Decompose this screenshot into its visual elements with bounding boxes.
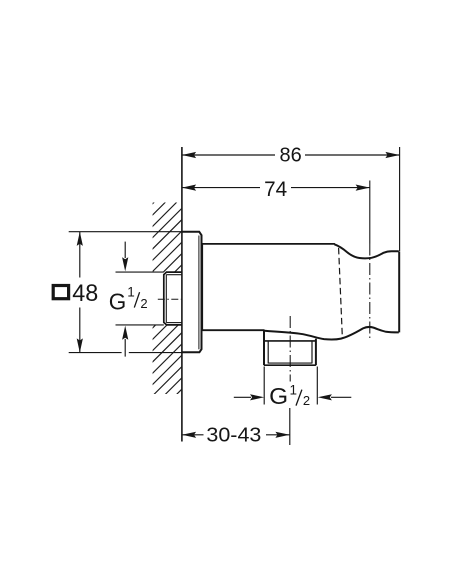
dim 48: bottom extension line (gap at G1/2 arrow shaft) bbox=[69, 352, 122, 354]
inlet thread chamfer bottom bbox=[166, 322, 181, 324]
holder right edge bbox=[398, 251, 400, 332]
holder top wave profile bbox=[334, 244, 398, 258]
inlet thread box behind wall bbox=[164, 272, 182, 325]
outlet thread top edge bbox=[264, 340, 316, 342]
svg-text:1: 1 bbox=[290, 382, 298, 397]
dim 86: right arrow bbox=[385, 152, 399, 158]
dim G1/2 left: fraction slash bbox=[134, 292, 139, 307]
dim G1/2 bottom: right arrow bbox=[331, 396, 351, 398]
flange (escutcheon) outline bbox=[182, 232, 202, 353]
holder bottom wave profile bbox=[264, 327, 399, 340]
dim 48: square symbol bbox=[53, 286, 68, 299]
dim G1/2 bottom: fraction slash bbox=[296, 390, 302, 406]
dim G1/2 bottom: left arrow bbox=[234, 396, 251, 398]
svg-text:G: G bbox=[109, 288, 127, 314]
outlet thread bottom edge bbox=[264, 364, 316, 366]
outlet centerline (dash-dot) bbox=[289, 316, 291, 382]
wall surface line (also extension line for 86/74/30-43) bbox=[181, 147, 183, 442]
svg-text:2: 2 bbox=[140, 296, 147, 311]
dim G1/2 bottom: left extension line bbox=[263, 367, 265, 405]
dim 48: bottom arrow bbox=[77, 338, 83, 352]
dim 48: vertical dimension line bbox=[79, 232, 81, 278]
dim 30-43: dimension line bbox=[182, 434, 204, 436]
svg-text:30-43: 30-43 bbox=[206, 425, 261, 447]
dim G1/2 left: up arrow bbox=[124, 339, 126, 357]
inlet thread chamfer vertical bbox=[165, 275, 167, 323]
dim G1/2 left: down arrow bbox=[124, 242, 126, 258]
outlet thread chamfer left bbox=[267, 342, 269, 364]
body cylinder left edge bbox=[201, 244, 203, 331]
dim 30-43: left arrow bbox=[182, 432, 196, 438]
svg-text:48: 48 bbox=[72, 280, 98, 307]
inlet thread chamfer top bbox=[166, 274, 181, 276]
holder hidden waist line (dashed) bbox=[339, 248, 343, 336]
svg-text:86: 86 bbox=[279, 145, 301, 167]
svg-text:1: 1 bbox=[127, 284, 135, 299]
holder centerline (dash-dot), extension of 74 dim bbox=[369, 181, 371, 244]
outlet thread inner bottom line bbox=[268, 362, 312, 364]
flange inner edge line bbox=[198, 236, 200, 350]
outlet right edge bbox=[315, 339, 317, 366]
wall hatching bbox=[120, 145, 200, 485]
dim 74: left arrow bbox=[182, 185, 196, 191]
dim 48: top extension line bbox=[69, 231, 182, 233]
svg-text:G: G bbox=[269, 383, 288, 409]
dim G1/2 left: bottom extension line bbox=[116, 324, 164, 326]
dim 30-43: right extension line bbox=[289, 408, 291, 445]
dim 48: top arrow bbox=[77, 232, 83, 246]
outlet left edge bbox=[263, 331, 265, 366]
dim G1/2 left: top extension line bbox=[116, 271, 164, 273]
inlet centerline (dash-dot) bbox=[158, 298, 182, 300]
body bottom line bbox=[202, 329, 264, 331]
dim 30-43: right arrow bbox=[275, 432, 289, 438]
svg-text:2: 2 bbox=[303, 393, 310, 408]
dim 86: dimension line bbox=[182, 154, 275, 156]
body top line bbox=[202, 243, 335, 245]
svg-text:74: 74 bbox=[264, 177, 287, 201]
dim 86: left arrow bbox=[182, 152, 196, 158]
dim 86: right extension line bbox=[399, 147, 401, 251]
outlet thread chamfer right bbox=[311, 342, 313, 364]
dim G1/2 bottom: right extension line bbox=[316, 367, 318, 405]
dim 74: right arrow bbox=[356, 185, 370, 191]
dim 74: dimension line bbox=[182, 187, 260, 189]
